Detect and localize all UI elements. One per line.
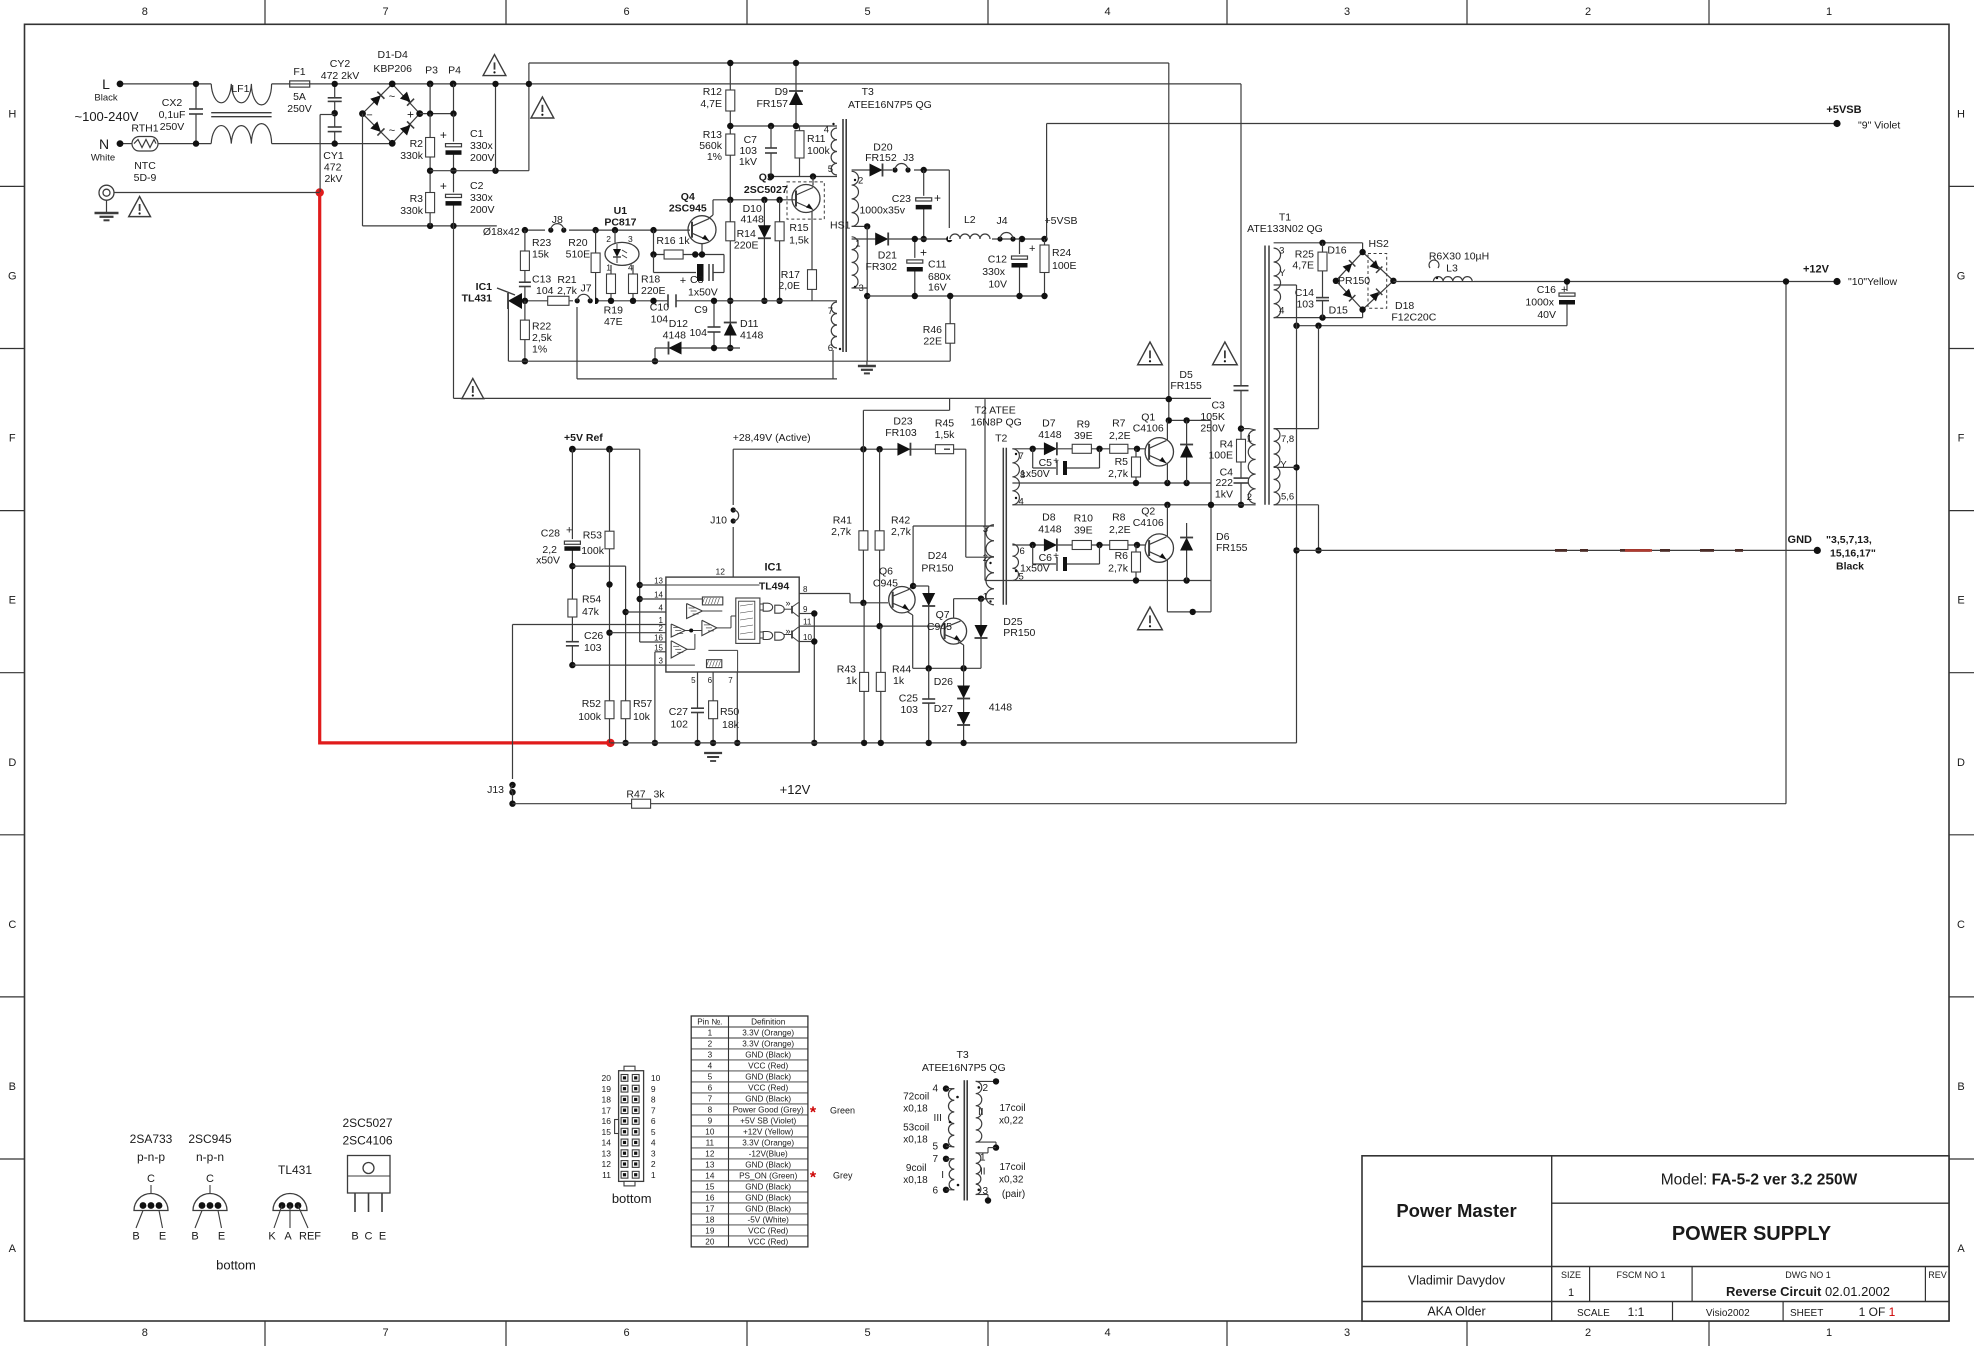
svg-text:R5: R5: [1115, 456, 1129, 468]
svg-text:510E: 510E: [566, 249, 591, 261]
svg-text:Reverse Circuit 02.01.2002: Reverse Circuit 02.01.2002: [1726, 1284, 1890, 1299]
svg-text:100E: 100E: [1208, 450, 1233, 462]
svg-text:PR150: PR150: [1003, 627, 1035, 639]
svg-text:J4: J4: [996, 215, 1007, 227]
svg-text:GND (Black): GND (Black): [745, 1072, 791, 1081]
svg-text:1: 1: [980, 1152, 986, 1163]
svg-text:Y: Y: [1279, 268, 1286, 279]
svg-text:13: 13: [705, 1160, 715, 1169]
svg-text:1: 1: [708, 1028, 713, 1037]
svg-text:R45: R45: [935, 417, 954, 429]
svg-text:R53: R53: [583, 530, 602, 542]
svg-text:2: 2: [983, 553, 988, 564]
svg-text:A: A: [284, 1231, 292, 1243]
svg-text:RTH1: RTH1: [131, 123, 158, 135]
svg-text:T2: T2: [995, 433, 1007, 445]
svg-text:F: F: [9, 433, 16, 445]
svg-text:100k: 100k: [578, 711, 602, 723]
svg-text:L: L: [102, 76, 110, 92]
svg-text:F: F: [1958, 433, 1965, 445]
svg-text:1%: 1%: [532, 344, 547, 356]
svg-text:D15: D15: [1329, 305, 1348, 317]
svg-text:x0,22: x0,22: [999, 1116, 1024, 1127]
svg-text:8: 8: [142, 1327, 148, 1339]
svg-text:15: 15: [705, 1182, 715, 1191]
svg-text:1x50V: 1x50V: [688, 287, 718, 299]
svg-text:200V: 200V: [470, 152, 495, 164]
svg-text:103: 103: [1296, 299, 1314, 311]
svg-text:T3: T3: [956, 1049, 968, 1061]
svg-text:250V: 250V: [287, 103, 312, 115]
svg-text:B: B: [191, 1231, 198, 1243]
svg-text:4148: 4148: [1038, 524, 1062, 536]
svg-text:R21: R21: [557, 274, 576, 286]
svg-text:L2: L2: [964, 214, 976, 226]
svg-text:E: E: [159, 1231, 166, 1243]
svg-text:10: 10: [705, 1127, 715, 1136]
svg-text:PS_ON (Green): PS_ON (Green): [739, 1171, 798, 1180]
svg-text:R46: R46: [923, 324, 942, 336]
svg-text:7,8: 7,8: [1281, 434, 1294, 445]
svg-text:53coil: 53coil: [903, 1123, 929, 1134]
svg-text:11: 11: [602, 1170, 611, 1180]
svg-text:C4106: C4106: [1133, 423, 1164, 435]
svg-text:2kV: 2kV: [324, 173, 342, 185]
svg-text:3.3V (Orange): 3.3V (Orange): [742, 1138, 794, 1147]
svg-text:R42: R42: [891, 514, 910, 526]
svg-text:2,7k: 2,7k: [831, 526, 852, 538]
svg-text:Power Master: Power Master: [1396, 1200, 1516, 1221]
svg-text:B: B: [1957, 1081, 1964, 1093]
svg-text:IC1: IC1: [476, 281, 493, 293]
svg-text:4,7E: 4,7E: [1292, 260, 1314, 272]
svg-text:100k: 100k: [807, 145, 831, 157]
svg-text:+: +: [440, 128, 447, 142]
svg-text:C23: C23: [892, 193, 911, 205]
svg-text:4: 4: [659, 604, 664, 613]
svg-text:2,7k: 2,7k: [557, 285, 578, 297]
svg-text:K: K: [268, 1231, 276, 1243]
svg-text:18: 18: [602, 1095, 612, 1105]
svg-text:FR155: FR155: [1216, 542, 1248, 554]
svg-text:2,7k: 2,7k: [891, 526, 912, 538]
svg-text:D7: D7: [1042, 417, 1056, 429]
svg-text:C1: C1: [470, 128, 484, 140]
svg-text:10: 10: [651, 1073, 661, 1083]
svg-text:D24: D24: [928, 550, 947, 562]
svg-text:R3: R3: [410, 193, 424, 205]
svg-text:C4106: C4106: [1133, 517, 1164, 529]
svg-text:2: 2: [858, 176, 863, 187]
svg-text:Definition: Definition: [751, 1017, 786, 1026]
svg-text:J7: J7: [580, 282, 591, 294]
svg-text:12: 12: [705, 1149, 715, 1158]
svg-text:Q3: Q3: [759, 172, 773, 184]
svg-text:C26: C26: [584, 630, 603, 642]
svg-text:bottom: bottom: [216, 1258, 256, 1273]
svg-text:D: D: [1957, 757, 1965, 769]
svg-text:x0,32: x0,32: [999, 1174, 1024, 1185]
svg-text:GND (Black): GND (Black): [745, 1204, 791, 1213]
svg-text:»: »: [785, 598, 790, 608]
svg-text:1: 1: [855, 239, 860, 250]
svg-text:20: 20: [705, 1237, 715, 1246]
svg-text:Pin №.: Pin №.: [697, 1017, 722, 1026]
svg-text:4: 4: [651, 1138, 656, 1148]
svg-text:6: 6: [932, 1185, 938, 1196]
svg-text:VCC (Red): VCC (Red): [748, 1083, 788, 1092]
svg-text:1kV: 1kV: [1215, 489, 1233, 501]
svg-text:GND (Black): GND (Black): [745, 1094, 791, 1103]
svg-text:GND (Black): GND (Black): [745, 1050, 791, 1059]
svg-text:20: 20: [602, 1073, 612, 1083]
svg-text:R52: R52: [582, 698, 601, 710]
svg-text:Vladimir Davydov: Vladimir Davydov: [1408, 1274, 1506, 1288]
svg-text:C28: C28: [541, 528, 560, 540]
svg-text:10: 10: [803, 633, 812, 642]
svg-text:+: +: [566, 525, 572, 537]
svg-text:+: +: [1053, 551, 1059, 562]
svg-text:FSCM NO 1: FSCM NO 1: [1616, 1270, 1665, 1280]
svg-text:U1: U1: [614, 205, 628, 217]
svg-text:16: 16: [654, 634, 663, 643]
svg-text:3: 3: [1279, 246, 1284, 257]
svg-text:4: 4: [1279, 306, 1284, 317]
svg-text:13: 13: [654, 577, 663, 586]
svg-text:PC817: PC817: [604, 217, 636, 229]
svg-text:*: *: [810, 1105, 817, 1122]
svg-text:PR150: PR150: [1338, 275, 1370, 287]
svg-text:39E: 39E: [1074, 525, 1093, 537]
svg-text:H: H: [1957, 108, 1965, 120]
svg-text:2: 2: [1247, 492, 1252, 503]
svg-text:1000x: 1000x: [1525, 297, 1554, 309]
svg-text:72coil: 72coil: [903, 1092, 929, 1103]
svg-text:9: 9: [803, 605, 808, 614]
svg-text:4,7E: 4,7E: [700, 98, 722, 110]
svg-text:TL431: TL431: [462, 293, 493, 305]
svg-text:1x50V: 1x50V: [1020, 468, 1050, 480]
svg-text:6: 6: [708, 1083, 713, 1092]
svg-text:R57: R57: [633, 698, 652, 710]
svg-text:2: 2: [659, 624, 664, 633]
svg-text:7: 7: [651, 1105, 656, 1115]
svg-text:PR150: PR150: [921, 562, 953, 574]
svg-text:ATE133N02 QG: ATE133N02 QG: [1247, 223, 1323, 235]
svg-text:Q2: Q2: [1141, 506, 1155, 518]
svg-text:15,16,17": 15,16,17": [1830, 548, 1876, 560]
svg-text:POWER SUPPLY: POWER SUPPLY: [1672, 1223, 1832, 1245]
svg-text:4148: 4148: [663, 329, 687, 341]
svg-text:22E: 22E: [923, 336, 942, 348]
svg-text:C: C: [147, 1173, 155, 1185]
svg-text:2,0E: 2,0E: [778, 280, 800, 292]
svg-text:9: 9: [708, 1116, 713, 1125]
svg-text:330x: 330x: [982, 266, 1006, 278]
svg-text:C27: C27: [669, 706, 688, 718]
svg-text:R6: R6: [1115, 550, 1129, 562]
svg-text:100E: 100E: [1052, 260, 1077, 272]
svg-text:1:1: 1:1: [1628, 1305, 1645, 1319]
svg-text:2,5k: 2,5k: [532, 332, 553, 344]
svg-text:330k: 330k: [400, 150, 424, 162]
svg-text:6: 6: [651, 1116, 656, 1126]
svg-text:B: B: [351, 1231, 358, 1243]
svg-text:Black: Black: [1836, 561, 1864, 573]
svg-text:1k: 1k: [893, 675, 905, 687]
svg-text:-5V (White): -5V (White): [747, 1215, 789, 1224]
svg-text:17: 17: [705, 1204, 715, 1213]
svg-text:8: 8: [708, 1105, 713, 1114]
svg-text:2,2E: 2,2E: [1109, 524, 1131, 536]
svg-text:17coil: 17coil: [1000, 1103, 1026, 1114]
svg-text:SCALE: SCALE: [1577, 1308, 1610, 1319]
svg-text:VCC (Red): VCC (Red): [748, 1061, 788, 1070]
svg-text:R4: R4: [1220, 438, 1234, 450]
svg-text:R47: R47: [626, 788, 645, 800]
svg-text:+: +: [1053, 456, 1059, 467]
svg-text:5A: 5A: [293, 91, 306, 103]
svg-text:+5V Ref: +5V Ref: [564, 432, 603, 444]
svg-text:J13: J13: [487, 784, 504, 796]
svg-text:VCC (Red): VCC (Red): [748, 1237, 788, 1246]
svg-text:1,5k: 1,5k: [789, 235, 810, 247]
svg-text:D5: D5: [1179, 369, 1193, 381]
svg-text:D18: D18: [1395, 300, 1414, 312]
svg-text:FR152: FR152: [865, 152, 897, 164]
svg-text:+: +: [440, 179, 447, 193]
svg-text:II: II: [980, 1167, 986, 1178]
svg-text:CX2: CX2: [162, 97, 183, 109]
svg-text:KBP206: KBP206: [373, 63, 412, 75]
svg-text:100k: 100k: [581, 545, 605, 557]
svg-text:P3: P3: [425, 65, 438, 77]
svg-text:5: 5: [708, 1072, 713, 1081]
svg-text:1 OF 1: 1 OF 1: [1859, 1305, 1896, 1319]
svg-text:D26: D26: [934, 676, 953, 688]
svg-text:0,1uF: 0,1uF: [159, 109, 186, 121]
svg-text:J10: J10: [710, 514, 727, 526]
svg-text:104: 104: [536, 285, 554, 297]
svg-text:D: D: [8, 757, 16, 769]
svg-text:6: 6: [828, 343, 833, 354]
svg-text:222: 222: [1215, 477, 1233, 489]
svg-text:7: 7: [728, 676, 733, 685]
svg-text:+: +: [1029, 243, 1035, 255]
svg-text:REF: REF: [299, 1231, 321, 1243]
svg-text:15: 15: [654, 643, 663, 652]
svg-text:II: II: [978, 1107, 984, 1118]
svg-text:104: 104: [689, 327, 707, 339]
svg-text:4148: 4148: [741, 214, 765, 226]
svg-text:R18: R18: [641, 273, 660, 285]
svg-text:L3: L3: [1446, 262, 1458, 274]
svg-text:Q1: Q1: [1141, 411, 1155, 423]
svg-text:220E: 220E: [734, 239, 759, 251]
svg-text:Power Good (Grey): Power Good (Grey): [733, 1105, 804, 1114]
svg-text:6: 6: [1020, 546, 1025, 557]
svg-text:5: 5: [932, 1142, 938, 1153]
svg-text:2,7k: 2,7k: [1108, 562, 1129, 574]
svg-text:D1-D4: D1-D4: [378, 49, 409, 61]
svg-text:7: 7: [1019, 451, 1024, 462]
svg-text:A: A: [9, 1243, 17, 1255]
svg-text:+: +: [1561, 284, 1567, 296]
svg-text:7: 7: [708, 1094, 713, 1103]
svg-text:103: 103: [900, 704, 918, 716]
svg-text:G: G: [1957, 270, 1966, 282]
svg-text:I: I: [941, 1170, 944, 1181]
svg-text:G: G: [8, 270, 17, 282]
svg-text:~100-240V: ~100-240V: [75, 109, 139, 124]
svg-text:VCC (Red): VCC (Red): [748, 1226, 788, 1235]
svg-text:*: *: [810, 1170, 817, 1187]
svg-text:2SC5027: 2SC5027: [744, 184, 788, 196]
svg-text:C3: C3: [1211, 400, 1225, 412]
svg-text:+5VSB: +5VSB: [1826, 104, 1861, 116]
svg-text:R44: R44: [892, 664, 911, 676]
svg-text:C5: C5: [1039, 457, 1053, 469]
svg-text:11: 11: [706, 1138, 715, 1147]
svg-text:2: 2: [708, 1039, 713, 1048]
svg-text:9: 9: [651, 1084, 656, 1094]
svg-text:10V: 10V: [988, 279, 1007, 291]
svg-text:1%: 1%: [707, 151, 722, 163]
svg-text:R14: R14: [737, 228, 756, 240]
svg-text:4148: 4148: [740, 329, 764, 341]
svg-text:8: 8: [803, 585, 808, 594]
svg-text:C: C: [1957, 919, 1965, 931]
svg-text:R10: R10: [1074, 513, 1093, 525]
svg-text:2: 2: [1585, 1327, 1591, 1339]
svg-text:2,2E: 2,2E: [1109, 430, 1131, 442]
svg-text:C8: C8: [690, 274, 704, 286]
svg-text:5D-9: 5D-9: [134, 172, 157, 184]
svg-text:FR157: FR157: [756, 98, 788, 110]
svg-text:R17: R17: [781, 269, 800, 281]
svg-text:3: 3: [628, 234, 633, 244]
svg-text:3.3V (Orange): 3.3V (Orange): [742, 1028, 794, 1037]
svg-text:2,7k: 2,7k: [1108, 468, 1129, 480]
svg-text:R8: R8: [1112, 512, 1126, 524]
svg-text:C2: C2: [470, 180, 484, 192]
svg-text:J3: J3: [903, 152, 914, 164]
svg-text:R19: R19: [604, 305, 623, 317]
svg-text:4148: 4148: [1038, 429, 1062, 441]
svg-text:T3: T3: [862, 86, 874, 98]
svg-text:1: 1: [1826, 6, 1832, 18]
svg-text:GND (Black): GND (Black): [745, 1182, 791, 1191]
svg-text:Grey: Grey: [833, 1171, 853, 1181]
svg-text:x0,18: x0,18: [903, 1175, 928, 1186]
svg-text:Q7: Q7: [936, 609, 950, 621]
svg-text:D21: D21: [878, 250, 897, 262]
svg-text:R15: R15: [789, 222, 808, 234]
svg-text:Q6: Q6: [879, 565, 893, 577]
svg-text:19: 19: [602, 1084, 612, 1094]
svg-text:14: 14: [654, 591, 663, 600]
svg-text:5,6: 5,6: [1281, 491, 1294, 502]
svg-text:R22: R22: [532, 321, 551, 333]
svg-text:NTC: NTC: [134, 160, 156, 172]
svg-text:R9: R9: [1077, 418, 1091, 430]
svg-text:R24: R24: [1052, 247, 1071, 259]
svg-text:D27: D27: [934, 703, 953, 715]
svg-text:FR302: FR302: [865, 261, 897, 273]
svg-text:DWG NO 1: DWG NO 1: [1785, 1270, 1831, 1280]
svg-text:6: 6: [708, 676, 713, 685]
svg-text:6: 6: [623, 6, 629, 18]
svg-text:7: 7: [382, 1327, 388, 1339]
svg-text:3: 3: [651, 1148, 656, 1158]
svg-text:102: 102: [670, 719, 688, 731]
svg-text:R23: R23: [532, 237, 551, 249]
svg-text:"3,5,7,13,: "3,5,7,13,: [1826, 534, 1872, 546]
svg-text:1: 1: [651, 1170, 656, 1180]
svg-text:3: 3: [1344, 6, 1350, 18]
svg-text:4: 4: [932, 1083, 938, 1094]
svg-text:R16 1k: R16 1k: [656, 235, 690, 247]
svg-text:REV: REV: [1928, 1270, 1947, 1280]
svg-text:2: 2: [983, 1083, 989, 1094]
svg-text:1: 1: [1568, 1287, 1574, 1299]
svg-text:P4: P4: [448, 65, 461, 77]
svg-text:9coil: 9coil: [906, 1163, 927, 1174]
svg-text:330k: 330k: [400, 205, 424, 217]
svg-text:~: ~: [389, 91, 395, 103]
svg-text:R25: R25: [1295, 249, 1314, 261]
svg-text:TL431: TL431: [278, 1163, 312, 1177]
svg-text:4148: 4148: [989, 702, 1013, 714]
svg-text:105K: 105K: [1200, 411, 1225, 423]
svg-text:17: 17: [602, 1105, 612, 1115]
svg-text:4: 4: [708, 1061, 713, 1070]
svg-text:39E: 39E: [1074, 430, 1093, 442]
svg-text:2SC5027: 2SC5027: [342, 1116, 392, 1130]
svg-text:47k: 47k: [582, 606, 600, 618]
svg-text:C13: C13: [532, 273, 551, 285]
svg-text:N: N: [99, 136, 109, 152]
svg-text:3: 3: [708, 1050, 713, 1059]
svg-text:8: 8: [651, 1095, 656, 1105]
svg-text:FR103: FR103: [885, 427, 917, 439]
svg-text:+12V: +12V: [780, 782, 811, 797]
svg-text:C945: C945: [873, 578, 898, 590]
svg-text:+: +: [680, 275, 686, 287]
svg-text:B: B: [9, 1081, 16, 1093]
svg-text:D11: D11: [740, 318, 759, 330]
svg-text:D23: D23: [893, 415, 912, 427]
svg-text:10k: 10k: [633, 711, 651, 723]
svg-text:E: E: [1957, 595, 1964, 607]
svg-text:F12C20C: F12C20C: [1391, 311, 1436, 323]
svg-text:Ø18x42: Ø18x42: [483, 226, 520, 238]
svg-text:4: 4: [1104, 6, 1110, 18]
svg-text:18: 18: [705, 1215, 715, 1224]
svg-text:C14: C14: [1295, 287, 1314, 299]
svg-text:Model: FA-5-2 ver 3.2 250W: Model: FA-5-2 ver 3.2 250W: [1661, 1172, 1858, 1189]
svg-text:2SC945: 2SC945: [669, 202, 707, 214]
svg-text:GND (Black): GND (Black): [745, 1193, 791, 1202]
svg-text:CY1: CY1: [323, 150, 344, 162]
svg-text:R2: R2: [410, 138, 424, 150]
svg-text:200V: 200V: [470, 204, 495, 216]
svg-text:R54: R54: [582, 593, 601, 605]
svg-text:1000x35v: 1000x35v: [859, 205, 905, 217]
svg-text:Y: Y: [1280, 459, 1287, 470]
svg-text:E: E: [218, 1231, 225, 1243]
svg-text:x0,18: x0,18: [903, 1135, 928, 1146]
